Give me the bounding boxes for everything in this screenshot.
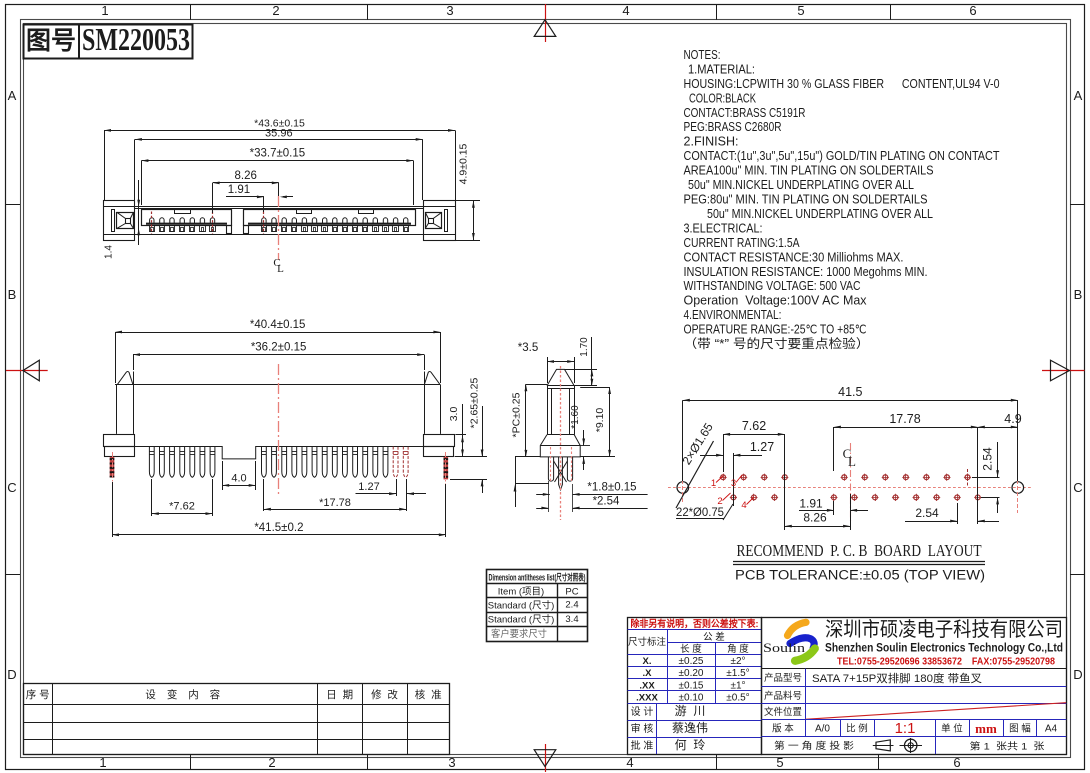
- svg-text:OPERATURE RANGE:-25℃ TO +85℃: OPERATURE RANGE:-25℃ TO +85℃: [684, 323, 867, 337]
- svg-text:*7.62: *7.62: [169, 501, 195, 513]
- svg-text:*2.54: *2.54: [593, 496, 620, 508]
- svg-text:1.27: 1.27: [358, 481, 379, 493]
- svg-text:游 川: 游 川: [675, 704, 706, 718]
- front view right flange: [424, 435, 455, 447]
- dimension *40.4±0.15: [115, 332, 117, 383]
- svg-text:4: 4: [622, 3, 629, 18]
- svg-text:1.MATERIAL:: 1.MATERIAL:: [688, 63, 755, 77]
- svg-text:2.54: 2.54: [981, 447, 995, 471]
- svg-text:*3.5: *3.5: [518, 342, 538, 354]
- svg-text:INSULATION RESISTANCE: 1000 Me: INSULATION RESISTANCE: 1000 Megohms MIN.: [684, 265, 928, 279]
- front view left wing latch: [117, 372, 132, 385]
- svg-text:A: A: [1074, 88, 1083, 103]
- dimension *33.7±0.15: [141, 161, 143, 205]
- svg-text:SM220053: SM220053: [82, 21, 190, 57]
- svg-text:*17.78: *17.78: [319, 497, 351, 509]
- PCB dimension 1.91: [833, 501, 835, 515]
- PCB dimension 2.54 vertical: [972, 477, 1000, 479]
- dimension 4.9±0.15 top view right: [455, 200, 480, 202]
- svg-text:PEG:80u" MIN. TIN PLATING ON S: PEG:80u" MIN. TIN PLATING ON SOLDERTAILS: [684, 193, 928, 207]
- side view red centerlines: [560, 366, 562, 520]
- svg-text:±0.20: ±0.20: [679, 668, 704, 679]
- svg-text:6: 6: [969, 3, 976, 18]
- PCB red mark on last top pad: [967, 469, 969, 487]
- svg-text:±0.25: ±0.25: [679, 656, 704, 667]
- svg-text:±1.5°: ±1.5°: [726, 668, 749, 679]
- svg-text:4.9: 4.9: [1004, 412, 1021, 426]
- svg-text:B: B: [1074, 287, 1083, 302]
- svg-text:22*Ø0.75: 22*Ø0.75: [676, 505, 724, 519]
- svg-text:何 玲: 何 玲: [675, 738, 706, 752]
- centering mark right: [1042, 370, 1085, 372]
- side view fisheye peg fork: [548, 457, 553, 481]
- dimension 8.26 top: [212, 183, 214, 213]
- svg-text:CONTACT RESISTANCE:30 Milliohm: CONTACT RESISTANCE:30 Milliohms MAX.: [684, 250, 904, 264]
- svg-text:±0.15: ±0.15: [679, 680, 704, 691]
- dimension *1.8±0.15: [536, 494, 550, 496]
- svg-text:3: 3: [448, 755, 455, 770]
- PCB dimension 1.27: [733, 453, 735, 506]
- PCB dimension 41.5: [682, 400, 684, 481]
- product rows: [761, 668, 1066, 670]
- PCB dimension 17.78: [833, 427, 835, 471]
- svg-text:设 计: 设 计: [631, 705, 654, 718]
- svg-text:角 度: 角 度: [727, 643, 749, 655]
- PCB red centerline horizontal: [668, 487, 1032, 489]
- zone tick marks left: [5, 204, 20, 206]
- svg-text:*1.60: *1.60: [570, 405, 581, 429]
- svg-text:2.FINISH:: 2.FINISH:: [684, 135, 739, 149]
- dimension 1.27 front: [396, 479, 398, 496]
- svg-text:审 核: 审 核: [631, 722, 654, 735]
- red diagonal line in file location row: [805, 703, 1066, 720]
- svg-text:A4: A4: [1045, 724, 1058, 735]
- svg-text:L: L: [848, 454, 856, 469]
- svg-text:3.4: 3.4: [565, 614, 578, 625]
- top view contact pins (22): [150, 218, 154, 224]
- svg-text:L: L: [277, 263, 284, 275]
- svg-text:8.26: 8.26: [235, 170, 257, 182]
- svg-text:单 位: 单 位: [941, 723, 963, 735]
- PCB label 2x dia 1.65: [676, 441, 714, 508]
- svg-text:Shenzhen Soulin Electronics Te: Shenzhen Soulin Electronics Technology C…: [825, 643, 1063, 655]
- svg-text:客户要求尺寸: 客户要求尺寸: [491, 628, 547, 640]
- svg-text:41.5: 41.5: [838, 385, 862, 399]
- svg-text:35.96: 35.96: [265, 128, 293, 140]
- svg-text:±0.10: ±0.10: [679, 693, 704, 704]
- dimension *1.60: [580, 445, 590, 447]
- front view fisheye pegs (red hatched): [110, 457, 115, 478]
- front view right wing latch: [424, 372, 440, 385]
- svg-text:深圳市硕凌电子科技有限公司: 深圳市硕凌电子科技有限公司: [825, 618, 1063, 641]
- dimension *2.54 side: [536, 508, 548, 510]
- svg-text:PC: PC: [565, 587, 578, 598]
- svg-text:PCB TOLERANCE:±0.05 (TOP VIEW): PCB TOLERANCE:±0.05 (TOP VIEW): [735, 568, 985, 583]
- svg-text:17.78: 17.78: [889, 412, 920, 426]
- svg-text:8.26: 8.26: [803, 511, 827, 525]
- centering mark left: [6, 370, 48, 372]
- svg-text:D: D: [1073, 667, 1082, 682]
- top view end peg block: [104, 201, 135, 241]
- svg-text:*9.10: *9.10: [594, 408, 606, 433]
- svg-text:蔡逸伟: 蔡逸伟: [672, 721, 708, 735]
- svg-text:HOUSING:LCPWITH 30 % GLASS FIB: HOUSING:LCPWITH 30 % GLASS FIBER CONTENT…: [684, 77, 1000, 91]
- svg-text:B: B: [8, 287, 17, 302]
- svg-text:*40.4±0.15: *40.4±0.15: [250, 319, 306, 331]
- svg-text:X.: X.: [643, 656, 652, 667]
- svg-text:50u" MIN.NICKEL UNDERPLATING O: 50u" MIN.NICKEL UNDERPLATING OVER ALL: [688, 178, 914, 192]
- svg-text:1: 1: [99, 755, 106, 770]
- front view pin root line with center standoff: [135, 447, 424, 459]
- PCB red centerline CL vertical: [850, 443, 852, 521]
- svg-text:1.70: 1.70: [579, 337, 590, 357]
- svg-text:PEG:BRASS C2680R: PEG:BRASS C2680R: [684, 120, 782, 134]
- top view fisheye peg bowtie: [426, 213, 442, 229]
- projection row: [935, 737, 937, 755]
- svg-text:Operation Voltage:100V AC Max: Operation Voltage:100V AC Max: [684, 294, 868, 308]
- svg-text:尺寸标注: 尺寸标注: [628, 636, 667, 648]
- dimension *3.5: [547, 357, 549, 383]
- side view base: [540, 435, 580, 457]
- dimension small arrow left bottom: [515, 457, 517, 507]
- svg-text:7.62: 7.62: [742, 419, 766, 433]
- svg-text:WITHSTANDING VOLTAGE: 500 VAC: WITHSTANDING VOLTAGE: 500 VAC: [684, 279, 861, 293]
- svg-text:*33.7±0.15: *33.7±0.15: [250, 148, 306, 160]
- svg-text:±2°: ±2°: [730, 656, 745, 667]
- svg-text:*41.5±0.2: *41.5±0.2: [254, 522, 303, 534]
- svg-text:.X: .X: [643, 668, 653, 679]
- svg-text:±0.5°: ±0.5°: [726, 693, 749, 704]
- top view 7-pin signal segment: [142, 210, 232, 226]
- svg-text:1: 1: [711, 478, 716, 489]
- PCB mounting hole left 1.65: [677, 482, 689, 494]
- svg-text:4: 4: [741, 500, 746, 511]
- svg-text:2: 2: [717, 496, 722, 507]
- svg-text:图 幅: 图 幅: [1009, 723, 1031, 735]
- svg-text:批 准: 批 准: [631, 739, 654, 752]
- drawing number title box: [24, 25, 193, 59]
- svg-text:公 差: 公 差: [703, 631, 725, 643]
- svg-text:3: 3: [446, 3, 453, 18]
- svg-text:（带 “*” 号的尺寸要重点检验）: （带 “*” 号的尺寸要重点检验）: [684, 336, 870, 351]
- PCB pin pads 0.75 (22): [721, 475, 726, 480]
- svg-text:5: 5: [776, 755, 783, 770]
- dimension *36.2±0.15: [133, 355, 135, 370]
- dimension *PC±0.25: [526, 384, 547, 386]
- svg-text:长 度: 长 度: [680, 643, 702, 655]
- PCB dimension 4.9: [978, 427, 1018, 429]
- svg-text:SATA 7+15P双排脚 180度 带鱼叉: SATA 7+15P双排脚 180度 带鱼叉: [812, 671, 982, 685]
- svg-text:4.ENVIRONMENTAL:: 4.ENVIRONMENTAL:: [684, 308, 782, 322]
- svg-text:第 一 角 度 投 影: 第 一 角 度 投 影: [774, 740, 855, 752]
- PCB mounting hole right 1.65: [1012, 482, 1024, 494]
- top view red inspection marks pins 1,7,8: [151, 212, 153, 234]
- dimension *7.62: [151, 479, 153, 516]
- svg-text:Soulin: Soulin: [763, 641, 806, 655]
- svg-text:CONTACT:(1u",3u",5u",15u") GOL: CONTACT:(1u",3u",5u",15u") GOLD/TIN PLAT…: [684, 149, 1000, 163]
- dimension antitheses list table: [487, 570, 588, 642]
- svg-text:50u" MIN.NICKEL UNDERPLATING O: 50u" MIN.NICKEL UNDERPLATING OVER ALL: [707, 207, 933, 221]
- svg-text:除非另有说明，否则公差按下表:: 除非另有说明，否则公差按下表:: [631, 618, 759, 630]
- side view body shaft: [547, 369, 574, 385]
- svg-text:.XX: .XX: [639, 680, 655, 691]
- soulin logo: [788, 622, 807, 635]
- svg-text:3.ELECTRICAL:: 3.ELECTRICAL:: [684, 221, 763, 235]
- svg-text:第 1 张共 1 张: 第 1 张共 1 张: [970, 741, 1046, 753]
- dimension 1.4 top view left: [138, 180, 140, 245]
- svg-text:1.4: 1.4: [104, 245, 115, 259]
- svg-text:1: 1: [101, 3, 108, 18]
- top view body outline: [103, 206, 455, 208]
- svg-text:CONTACT:BRASS C5191R: CONTACT:BRASS C5191R: [684, 106, 806, 120]
- zone tick marks bottom: [190, 754, 192, 769]
- svg-text:CURRENT RATING:1.5A: CURRENT RATING:1.5A: [684, 236, 801, 250]
- svg-text:产品料号: 产品料号: [764, 690, 802, 702]
- svg-text:.XXX: .XXX: [636, 693, 658, 704]
- svg-text:*36.2±0.15: *36.2±0.15: [251, 342, 307, 354]
- dimension *9.10: [580, 387, 609, 389]
- dimension *41.5±0.2: [112, 482, 114, 537]
- top view 15-pin power segment: [244, 210, 416, 226]
- svg-text:3: 3: [731, 478, 736, 489]
- svg-text:修 改: 修 改: [371, 688, 398, 701]
- top view end peg block: [424, 201, 456, 241]
- svg-text:版 本: 版 本: [772, 723, 794, 735]
- projection target symbol: [905, 739, 917, 751]
- svg-text:文件位置: 文件位置: [764, 706, 802, 718]
- svg-text:2: 2: [268, 755, 275, 770]
- svg-text:比 例: 比 例: [846, 723, 868, 735]
- revision table: [24, 684, 450, 755]
- svg-text:2.4: 2.4: [565, 600, 578, 611]
- front view centerline: [278, 364, 280, 495]
- svg-text:COLOR:BLACK: COLOR:BLACK: [689, 91, 756, 105]
- tolerance table: [628, 618, 762, 755]
- svg-text:Dimension antitheses list(尺寸对照: Dimension antitheses list(尺寸对照表): [489, 571, 586, 582]
- svg-text:1.27: 1.27: [750, 440, 774, 454]
- svg-text:D: D: [7, 667, 16, 682]
- svg-text:产品型号: 产品型号: [764, 672, 802, 684]
- svg-text:mm: mm: [975, 721, 997, 736]
- svg-text:*2.65±0.25: *2.65±0.25: [469, 377, 481, 428]
- svg-text:Standard (尺寸): Standard (尺寸): [488, 600, 555, 612]
- top view centerline: [278, 196, 280, 260]
- dimension 3.0: [455, 434, 466, 436]
- svg-text:日 期: 日 期: [326, 689, 353, 701]
- svg-text:4: 4: [626, 755, 633, 770]
- svg-text:2: 2: [272, 3, 279, 18]
- front view solder tail pins (22): [149, 447, 154, 478]
- svg-text:C: C: [1073, 480, 1082, 495]
- svg-text:6: 6: [953, 755, 960, 770]
- svg-text:*PC±0.25: *PC±0.25: [511, 392, 523, 437]
- zone tick marks right: [1070, 204, 1084, 206]
- dimension *43.6±0.15: [104, 130, 106, 200]
- svg-text:核 准: 核 准: [415, 688, 442, 701]
- first angle projection symbol: [876, 740, 890, 751]
- dimension 1.91 top: [263, 197, 265, 212]
- svg-text:3.0: 3.0: [448, 407, 460, 422]
- svg-text:4.0: 4.0: [231, 473, 246, 485]
- dimension *2.65±0.25: [450, 479, 487, 481]
- svg-text:1.91: 1.91: [228, 184, 250, 196]
- centering mark bottom: [545, 744, 547, 772]
- svg-text:±1°: ±1°: [730, 680, 745, 691]
- svg-text:设 变 内 容: 设 变 内 容: [145, 688, 224, 701]
- svg-text:NOTES:: NOTES:: [684, 48, 721, 62]
- svg-text:5: 5: [797, 3, 804, 18]
- dimension 1.70: [565, 369, 598, 371]
- front view body: [115, 384, 440, 386]
- svg-text:A: A: [8, 88, 17, 103]
- svg-text:C: C: [7, 480, 16, 495]
- dimension 4.0: [222, 461, 224, 490]
- company title block: [762, 618, 1067, 755]
- zone tick marks top: [190, 4, 192, 20]
- front view left flange: [104, 435, 135, 447]
- centering mark top: [545, 4, 547, 42]
- PCB dimension 7.62: [723, 434, 725, 472]
- svg-text:*1.8±0.15: *1.8±0.15: [587, 482, 636, 494]
- top view fisheye peg bowtie: [117, 213, 134, 229]
- svg-text:图号: 图号: [26, 27, 76, 55]
- svg-text:Standard (尺寸): Standard (尺寸): [488, 614, 555, 626]
- PCB dimension 2.54 bottom: [957, 503, 959, 524]
- PCB dimension 8.26: [784, 434, 786, 530]
- svg-text:AREA100u" MIN. TIN PLATING ON: AREA100u" MIN. TIN PLATING ON SOLDERTAIL…: [684, 164, 934, 178]
- svg-text:序 号: 序 号: [26, 688, 50, 701]
- svg-text:4.9±0.15: 4.9±0.15: [458, 143, 470, 184]
- version row: [805, 720, 807, 737]
- svg-text:A/0: A/0: [815, 724, 830, 735]
- svg-text:1.91: 1.91: [799, 497, 823, 511]
- dimension 35.96: [134, 139, 136, 200]
- dimension *17.78: [263, 479, 265, 511]
- svg-text:1:1: 1:1: [895, 720, 916, 737]
- svg-text:TEL:0755-29520696 33853672: TEL:0755-29520696 33853672 FAX:0755-2952…: [837, 656, 1055, 668]
- svg-text:2.54: 2.54: [915, 506, 939, 520]
- svg-text:RECOMMEND P. C. B BOARD LAY: RECOMMEND P. C. B BOARD LAYOUT: [737, 541, 982, 560]
- svg-text:Item (项目): Item (项目): [498, 587, 544, 598]
